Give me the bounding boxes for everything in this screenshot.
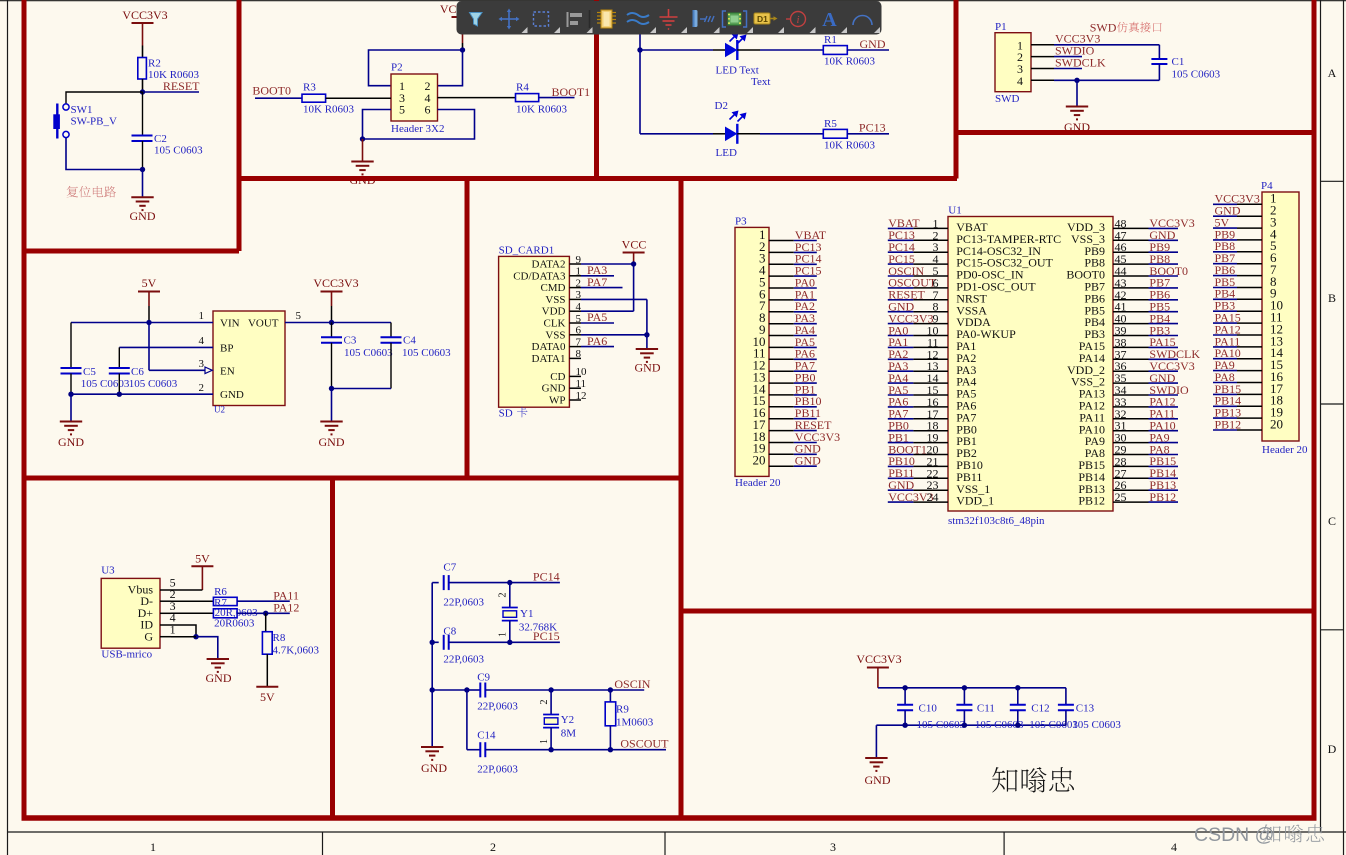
svg-text:P2: P2 bbox=[391, 62, 403, 74]
svg-text:VCC3V3: VCC3V3 bbox=[856, 652, 901, 666]
capacitor C12 bbox=[1010, 688, 1079, 731]
svg-text:2: 2 bbox=[539, 700, 550, 705]
rail2 down bbox=[466, 690, 468, 750]
svg-text:A: A bbox=[1328, 66, 1337, 80]
svg-text:Y2: Y2 bbox=[561, 714, 574, 726]
net label SWDIO U1 pin 34 bbox=[1113, 383, 1189, 397]
net label PA7 P3 pin 12 bbox=[769, 359, 817, 373]
net label PA0 U1 pin 10 bbox=[888, 323, 948, 337]
svg-text:PA7: PA7 bbox=[587, 275, 607, 289]
wire pin5 to ground rail bbox=[363, 110, 392, 140]
svg-text:VCC3V3: VCC3V3 bbox=[122, 8, 167, 22]
resistor R9 bbox=[605, 690, 654, 750]
wire C3/C4 ground rail bbox=[332, 388, 392, 390]
svg-text:SWDCLK: SWDCLK bbox=[1055, 55, 1106, 69]
net label PA11 U1 pin 32 bbox=[1113, 407, 1178, 421]
net label SWDIO / wire pin2 bbox=[1031, 44, 1095, 58]
svg-text:B: B bbox=[1328, 291, 1336, 305]
svg-text:10K R0603: 10K R0603 bbox=[824, 139, 876, 151]
net label PB3 P4 pin 10 bbox=[1213, 299, 1262, 313]
svg-text:22P,0603: 22P,0603 bbox=[443, 597, 484, 609]
capacitor C4 bbox=[381, 323, 452, 389]
net label PA1 P3 pin 6 bbox=[769, 287, 817, 301]
header P1 (SWD) bbox=[995, 21, 1031, 105]
svg-text:GND: GND bbox=[795, 454, 821, 468]
svg-text:OSCIN: OSCIN bbox=[614, 677, 650, 691]
svg-text:SW1: SW1 bbox=[71, 104, 93, 116]
connector SD_CARD1 bbox=[499, 245, 570, 420]
svg-text:A: A bbox=[822, 9, 837, 31]
net label PB6 P4 pin 7 bbox=[1213, 263, 1262, 277]
net label PA9 U1 pin 30 bbox=[1113, 430, 1178, 444]
svg-text:PB12: PB12 bbox=[1078, 494, 1105, 508]
svg-text:20: 20 bbox=[753, 453, 766, 468]
net label PC14 U1 pin 3 bbox=[888, 240, 948, 254]
wire VCC down to VDD bbox=[633, 264, 635, 311]
net label PA4 U1 pin 14 bbox=[888, 371, 948, 385]
regulator U2 (VIN VOUT BP EN GND) bbox=[213, 311, 285, 415]
svg-text:LED Text: LED Text bbox=[716, 65, 759, 77]
net label 5V P4 pin 3 bbox=[1213, 216, 1262, 230]
svg-text:PB12: PB12 bbox=[1215, 417, 1242, 431]
capacitor C5 bbox=[61, 323, 130, 395]
net label BOOT0 bbox=[252, 84, 302, 99]
ground GND (usb) bbox=[206, 659, 232, 685]
led D2 arrows bbox=[730, 111, 747, 122]
svg-text:105 C0603: 105 C0603 bbox=[154, 145, 203, 157]
zone label 2 bbox=[490, 840, 496, 854]
net label OSCIN U1 pin 5 bbox=[888, 264, 948, 278]
zone label 4 bbox=[1171, 840, 1177, 854]
svg-text:2: 2 bbox=[576, 277, 582, 289]
net label OSCOUT U1 pin 6 bbox=[888, 276, 948, 290]
node junction C8 left bbox=[430, 640, 435, 645]
capacitor C14 bbox=[467, 730, 666, 776]
svg-text:GND: GND bbox=[542, 383, 566, 395]
svg-text:2: 2 bbox=[490, 840, 496, 854]
svg-text:D1: D1 bbox=[757, 14, 768, 24]
net label PC13 bbox=[847, 121, 889, 135]
net label PA12 bbox=[237, 601, 299, 615]
wire pin4 VDD bbox=[581, 310, 634, 312]
svg-text:DATA0: DATA0 bbox=[532, 341, 566, 353]
svg-text:Y1: Y1 bbox=[520, 608, 533, 620]
svg-text:22P,0603: 22P,0603 bbox=[443, 654, 484, 666]
svg-text:BOOT0: BOOT0 bbox=[252, 84, 291, 98]
net label VCC3V3 U1 pin 24 bbox=[888, 490, 948, 504]
svg-text:C5: C5 bbox=[83, 366, 96, 378]
node junction led rail bbox=[637, 47, 642, 52]
net label PC13 P3 pin 2 bbox=[769, 240, 822, 254]
caps bottom rail bbox=[876, 724, 1066, 726]
svg-text:C1: C1 bbox=[1172, 56, 1185, 68]
header P3 (Header 20) bbox=[735, 216, 781, 490]
svg-text:6: 6 bbox=[425, 103, 431, 117]
svg-text:C: C bbox=[1328, 514, 1336, 528]
net label PA6 U1 pin 16 bbox=[888, 395, 948, 409]
svg-text:10K R0603: 10K R0603 bbox=[824, 56, 876, 68]
wire pin3 EN / pin number 3 bbox=[149, 323, 212, 374]
net label PB4 P4 pin 9 bbox=[1213, 287, 1262, 301]
svg-text:R2: R2 bbox=[148, 58, 161, 70]
power port VCC3V3 (ldo out) bbox=[313, 276, 358, 323]
node junction at pin5 ground bbox=[360, 136, 365, 141]
net label PB12 U1 pin 25 bbox=[1113, 490, 1178, 504]
wire row3 to rail2 bbox=[432, 689, 467, 691]
resistor R5 bbox=[823, 118, 875, 152]
node junction C12 bottom bbox=[1015, 723, 1020, 728]
svg-text:105 C0603: 105 C0603 bbox=[81, 378, 130, 390]
net label PB8 P4 pin 5 bbox=[1213, 239, 1262, 253]
svg-text:8M: 8M bbox=[561, 728, 577, 740]
switch SW1 SW-PB_V bbox=[53, 104, 117, 139]
net label PA8 U1 pin 29 bbox=[1113, 442, 1178, 456]
wire pin1 VIN / pin number 1 bbox=[71, 310, 213, 323]
svg-text:4.7K,0603: 4.7K,0603 bbox=[273, 644, 320, 656]
svg-text:DATA1: DATA1 bbox=[532, 353, 566, 365]
svg-text:R6: R6 bbox=[214, 586, 227, 598]
wire from switch to ground rail bbox=[66, 138, 143, 170]
net label PB3 U1 pin 39 bbox=[1113, 323, 1178, 337]
net label PB4 U1 pin 40 bbox=[1113, 311, 1178, 325]
net label PA12 U1 pin 33 bbox=[1113, 395, 1178, 409]
node junction C11 top bbox=[962, 685, 967, 690]
net label VCC3V3 / wire pin1 bbox=[1031, 32, 1159, 46]
svg-text:CMD: CMD bbox=[540, 282, 565, 294]
net label VCC3V3 P4 pin 1 bbox=[1213, 192, 1262, 206]
zone label 1 bbox=[150, 840, 156, 854]
zone label C bbox=[1328, 514, 1336, 528]
zone label 3 bbox=[830, 840, 836, 854]
svg-text:5: 5 bbox=[296, 310, 302, 322]
svg-text:PB12: PB12 bbox=[1149, 490, 1176, 504]
svg-text:10K R0603: 10K R0603 bbox=[516, 104, 568, 116]
svg-text:R4: R4 bbox=[516, 82, 529, 94]
net label VCC3V3 U1 pin 36 bbox=[1113, 359, 1195, 373]
wire header pin2 to VCC bbox=[438, 50, 463, 86]
svg-text:OSCOUT: OSCOUT bbox=[620, 737, 669, 751]
wire to OSCIN bbox=[551, 689, 610, 691]
svg-text:USB-mrico: USB-mrico bbox=[101, 649, 152, 661]
svg-text:Header 3X2: Header 3X2 bbox=[391, 123, 444, 135]
wire pin4 / gnd rail bbox=[1031, 79, 1159, 81]
svg-text:D: D bbox=[1328, 742, 1337, 756]
svg-text:24: 24 bbox=[927, 490, 939, 504]
svg-text:5V: 5V bbox=[260, 690, 275, 704]
node junction Y2 bottom bbox=[548, 747, 553, 752]
svg-text:6: 6 bbox=[576, 325, 582, 337]
svg-text:D2: D2 bbox=[715, 100, 728, 112]
svg-text:105 C0603: 105 C0603 bbox=[344, 347, 393, 359]
ground GND (ldo left) bbox=[58, 394, 84, 449]
svg-text:VSS: VSS bbox=[545, 294, 565, 306]
svg-text:SD_CARD1: SD_CARD1 bbox=[499, 245, 555, 257]
wire pin5 VOUT / pin number 5 bbox=[285, 310, 391, 323]
net label SWDCLK U1 pin 37 bbox=[1113, 347, 1200, 361]
svg-text:C11: C11 bbox=[977, 703, 995, 715]
wire bbox=[142, 79, 144, 92]
svg-text:R1: R1 bbox=[824, 34, 837, 46]
led diode D1 bbox=[716, 40, 824, 88]
resistor R6 bbox=[171, 586, 237, 606]
node junction C11 bottom bbox=[962, 723, 967, 728]
svg-text:5V: 5V bbox=[142, 276, 157, 290]
net label PA8 P4 pin 16 bbox=[1213, 370, 1262, 384]
sd pin stubs and numbers bbox=[569, 254, 587, 402]
capacitor C8 bbox=[432, 626, 510, 666]
svg-text:20: 20 bbox=[1270, 416, 1283, 431]
svg-text:105 C0603: 105 C0603 bbox=[1172, 69, 1221, 81]
net label PA7 U1 pin 17 bbox=[888, 407, 948, 421]
svg-text:105 C0603: 105 C0603 bbox=[1072, 719, 1121, 731]
svg-text:3: 3 bbox=[199, 358, 205, 370]
net label PB9 P4 pin 4 bbox=[1213, 227, 1262, 241]
net label RESET U1 pin 7 bbox=[888, 288, 948, 302]
net label PA15 P4 pin 11 bbox=[1213, 311, 1262, 325]
ground GND (crystal) bbox=[421, 747, 447, 775]
net label PA9 P4 pin 15 bbox=[1213, 358, 1262, 372]
svg-text:VOUT: VOUT bbox=[248, 318, 279, 330]
node junction R9 top bbox=[608, 687, 613, 692]
svg-text:1M0603: 1M0603 bbox=[616, 717, 654, 729]
net label PC13 U1 pin 2 bbox=[888, 228, 948, 242]
svg-text:LED: LED bbox=[716, 147, 737, 159]
net label PA10 P4 pin 14 bbox=[1213, 346, 1262, 360]
ground GND (ldo right) bbox=[319, 389, 345, 450]
svg-text:SWD: SWD bbox=[995, 93, 1020, 105]
svg-text:VCC3V3: VCC3V3 bbox=[313, 276, 358, 290]
resistor R8 bbox=[262, 613, 319, 656]
node junction C6 gnd bbox=[117, 392, 122, 397]
svg-text:1: 1 bbox=[576, 266, 582, 278]
svg-text:22P,0603: 22P,0603 bbox=[477, 764, 518, 776]
capacitor C9 bbox=[467, 672, 551, 713]
wire pin4 to R4 bbox=[438, 97, 516, 99]
node junction Y1 bottom bbox=[507, 640, 512, 645]
zone label A bbox=[1328, 66, 1337, 80]
net label PA10 U1 pin 31 bbox=[1113, 419, 1178, 433]
svg-text:WP: WP bbox=[549, 395, 566, 407]
svg-text:R3: R3 bbox=[303, 82, 316, 94]
svg-text:2: 2 bbox=[498, 593, 509, 598]
net label PB13 P4 pin 19 bbox=[1213, 406, 1262, 420]
svg-text:GND: GND bbox=[206, 671, 232, 685]
net label PB1 P3 pin 14 bbox=[769, 382, 817, 396]
svg-text:SD: SD bbox=[499, 408, 513, 420]
node junction Y2 top bbox=[548, 687, 553, 692]
resistor R1 bbox=[823, 34, 875, 68]
wire pin3 VSS bbox=[581, 298, 647, 300]
svg-text:C8: C8 bbox=[443, 626, 456, 638]
capacitor C13 bbox=[1058, 688, 1121, 731]
usb pin stubs and numbers bbox=[160, 576, 176, 637]
svg-text:105 C0603: 105 C0603 bbox=[129, 378, 178, 390]
value 20R,0603 / 20R0603 bbox=[214, 607, 258, 630]
svg-text:4: 4 bbox=[199, 335, 205, 347]
svg-text:Header 20: Header 20 bbox=[1262, 444, 1308, 456]
svg-text:4: 4 bbox=[1017, 74, 1023, 88]
svg-text:3: 3 bbox=[576, 289, 582, 301]
svg-text:20R0603: 20R0603 bbox=[214, 618, 255, 630]
svg-text:GND: GND bbox=[865, 773, 891, 787]
net label VCC3V3 U1 pin 48 bbox=[1113, 216, 1195, 230]
svg-text:R9: R9 bbox=[616, 704, 629, 716]
net label PB15 P4 pin 17 bbox=[1213, 382, 1262, 396]
net label PA3 U1 pin 13 bbox=[888, 359, 948, 373]
wire G to gnd bbox=[171, 637, 218, 659]
net label PA5 U1 pin 15 bbox=[888, 383, 948, 397]
net label PB5 U1 pin 41 bbox=[1113, 300, 1178, 314]
node junction VCC pin9 bbox=[631, 261, 636, 266]
svg-text:CD: CD bbox=[550, 371, 565, 383]
node junction usb gnd bbox=[193, 634, 198, 639]
svg-text:11: 11 bbox=[576, 378, 587, 390]
svg-text:GND: GND bbox=[220, 389, 244, 401]
led diode D2 bbox=[640, 124, 823, 159]
net label PB11 U1 pin 22 bbox=[888, 466, 948, 480]
resistor R2 bbox=[138, 58, 200, 82]
svg-text:PC13: PC13 bbox=[859, 121, 886, 135]
capacitor C7 bbox=[432, 562, 510, 609]
svg-text:C3: C3 bbox=[344, 335, 357, 347]
net label PB14 P4 pin 18 bbox=[1213, 394, 1262, 408]
annotation SWD interface title bbox=[1090, 21, 1162, 35]
svg-text:CD/DATA3: CD/DATA3 bbox=[513, 270, 566, 282]
svg-text:P3: P3 bbox=[735, 216, 747, 228]
svg-text:C2: C2 bbox=[154, 133, 167, 145]
net label PB12 P4 pin 20 bbox=[1213, 417, 1262, 431]
svg-text:8: 8 bbox=[576, 348, 582, 360]
capacitor C11 bbox=[956, 688, 1024, 731]
net label PC14 bbox=[510, 570, 560, 584]
net label PB11 P3 pin 16 bbox=[769, 406, 821, 420]
node junction C12 top bbox=[1015, 685, 1020, 690]
net label GND P4 pin 2 bbox=[1213, 204, 1262, 218]
svg-text:C6: C6 bbox=[131, 366, 144, 378]
net label PA3 pin1 bbox=[581, 263, 614, 277]
svg-text:22P,0603: 22P,0603 bbox=[477, 701, 518, 713]
net label BOOT1 U1 pin 20 bbox=[888, 442, 948, 456]
power port 5V (R8 pull) bbox=[256, 654, 278, 704]
ground GND (sd) bbox=[635, 335, 661, 375]
watermark CSDN bbox=[1194, 824, 1324, 846]
svg-text:5: 5 bbox=[576, 313, 582, 325]
net label GND (led1) bbox=[847, 37, 889, 51]
net label VCC3V3 U1 pin 9 bbox=[888, 311, 948, 325]
svg-text:4: 4 bbox=[1171, 840, 1177, 854]
svg-text:i: i bbox=[796, 14, 799, 26]
svg-text:VDD: VDD bbox=[542, 306, 566, 318]
resistor R7 bbox=[171, 597, 237, 618]
wire ID to G bbox=[171, 625, 196, 637]
node junction 5V/VIN bbox=[146, 320, 151, 325]
svg-text:10: 10 bbox=[576, 366, 588, 378]
net label PA11 P4 pin 13 bbox=[1213, 334, 1262, 348]
net label PB7 U1 pin 43 bbox=[1113, 276, 1178, 290]
net label PC14 P3 pin 3 bbox=[769, 252, 822, 266]
power port 5V (usb) bbox=[191, 551, 213, 590]
crystal Y2 8M bbox=[539, 690, 576, 750]
node junction VOUT bbox=[329, 320, 334, 325]
net label GND U1 pin 8 bbox=[888, 300, 948, 314]
power port VCC3V3 (caps) bbox=[856, 652, 901, 688]
net label PA11 bbox=[237, 589, 299, 603]
node junction C3 gnd bbox=[329, 386, 334, 391]
designator D2 bbox=[715, 100, 728, 112]
node junction at R2/C2/RESET bbox=[140, 89, 145, 94]
wire bbox=[142, 46, 144, 58]
title zhiwengzhong bbox=[992, 767, 1074, 792]
svg-text:RESET: RESET bbox=[163, 79, 200, 93]
node junction at C2 bottom bbox=[140, 167, 145, 172]
net label GND P3 pin 20 bbox=[769, 454, 821, 468]
ground GND (swd block) bbox=[1064, 80, 1090, 134]
svg-text:PC14: PC14 bbox=[533, 570, 560, 584]
svg-text:U2: U2 bbox=[214, 405, 225, 415]
power port VCC (sd) bbox=[622, 238, 647, 265]
wire pin6 VSS bbox=[581, 334, 647, 336]
svg-text:4: 4 bbox=[576, 301, 582, 313]
net label GND P3 pin 19 bbox=[769, 442, 821, 456]
svg-text:GND: GND bbox=[58, 435, 84, 449]
net label PA3 P3 pin 8 bbox=[769, 311, 817, 325]
power port VCC3V3 (boot block, behind toolbar) bbox=[440, 2, 485, 50]
net label GND U1 pin 23 bbox=[888, 478, 948, 492]
node junction VSS bbox=[644, 332, 649, 337]
svg-text:C4: C4 bbox=[403, 335, 416, 347]
node junction PA12/R8 bbox=[263, 611, 268, 616]
svg-text:VCC: VCC bbox=[622, 238, 647, 252]
svg-text:Text: Text bbox=[751, 76, 770, 88]
svg-text:C9: C9 bbox=[477, 672, 490, 684]
node junction C10 bottom bbox=[902, 723, 907, 728]
svg-text:10K R0603: 10K R0603 bbox=[303, 104, 355, 116]
svg-text:GND: GND bbox=[860, 37, 886, 51]
net label VBAT U1 pin 1 bbox=[888, 216, 948, 230]
net label PB0 P3 pin 13 bbox=[769, 371, 817, 385]
net label PA4 P3 pin 9 bbox=[769, 323, 817, 337]
zone label B bbox=[1328, 291, 1336, 305]
svg-text:CLK: CLK bbox=[544, 318, 566, 330]
net label PB15 U1 pin 28 bbox=[1113, 454, 1178, 468]
net label PB10 U1 pin 21 bbox=[888, 454, 948, 468]
net label PC15 bbox=[510, 629, 560, 643]
svg-text:VDD_1: VDD_1 bbox=[956, 494, 994, 508]
svg-text:GND: GND bbox=[635, 361, 661, 375]
net label PC15 U1 pin 4 bbox=[888, 252, 948, 266]
svg-text:C7: C7 bbox=[443, 562, 456, 574]
net label SWDCLK / wire pin3 bbox=[1031, 55, 1106, 69]
svg-text:GND: GND bbox=[319, 435, 345, 449]
svg-text:R5: R5 bbox=[824, 118, 837, 130]
svg-text:7: 7 bbox=[576, 336, 582, 348]
wire to switch bbox=[66, 92, 143, 104]
net label RESET bbox=[143, 79, 201, 93]
node junction rail row3 bbox=[430, 687, 435, 692]
ground GND (reset block) bbox=[130, 170, 156, 224]
net label PC15 P3 pin 4 bbox=[769, 264, 822, 278]
node junction rail2 row3 bbox=[464, 687, 469, 692]
capacitor C6 bbox=[109, 347, 178, 394]
wire led rail down bbox=[639, 50, 641, 134]
net label PA6 pin7 bbox=[581, 334, 614, 348]
net label VCC3V3 P3 pin 18 bbox=[769, 430, 840, 444]
node junction C5 gnd bbox=[68, 392, 73, 397]
svg-text:EN: EN bbox=[220, 366, 235, 378]
ground GND (boot block) bbox=[350, 139, 376, 187]
capacitor C3 bbox=[321, 323, 393, 389]
net label PB10 P3 pin 15 bbox=[769, 394, 822, 408]
